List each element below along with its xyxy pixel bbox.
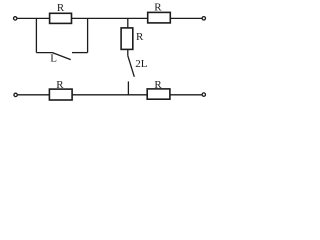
- wire: middle stub below resistor: [127, 49, 129, 56]
- terminal: bottom left: [14, 93, 17, 96]
- wire: bottom rail: [16, 94, 204, 96]
- wire: top rail: [15, 17, 204, 19]
- terminal: top right: [202, 17, 205, 20]
- resistor R5 (bottom right): [147, 89, 170, 99]
- wire: switch loop right vertical: [87, 18, 89, 52]
- resistor R1 (top left): [50, 13, 72, 23]
- svg-text:R: R: [57, 2, 65, 14]
- svg-text:R: R: [154, 79, 162, 91]
- svg-text:L: L: [50, 53, 57, 65]
- wire: switch loop left vertical: [35, 18, 37, 52]
- svg-text:2L: 2L: [135, 58, 148, 70]
- svg-text:R: R: [56, 79, 64, 91]
- switch L blade (open): [52, 53, 70, 60]
- resistor R2 (top right): [148, 12, 171, 23]
- svg-text:R: R: [154, 1, 162, 13]
- switch 2L blade (open): [128, 56, 135, 77]
- wire: switch L right contact lead: [72, 52, 88, 54]
- wire: switch L left contact lead: [36, 52, 52, 54]
- wire: middle branch lower contact to bottom rail: [127, 81, 129, 94]
- resistor R4 (bottom left): [49, 89, 72, 100]
- svg-text:R: R: [136, 31, 144, 43]
- terminal: top left: [14, 17, 17, 20]
- resistor R3 (vertical, middle): [121, 28, 133, 50]
- wire: middle branch top stub: [127, 18, 129, 28]
- terminal: bottom right: [202, 93, 205, 96]
